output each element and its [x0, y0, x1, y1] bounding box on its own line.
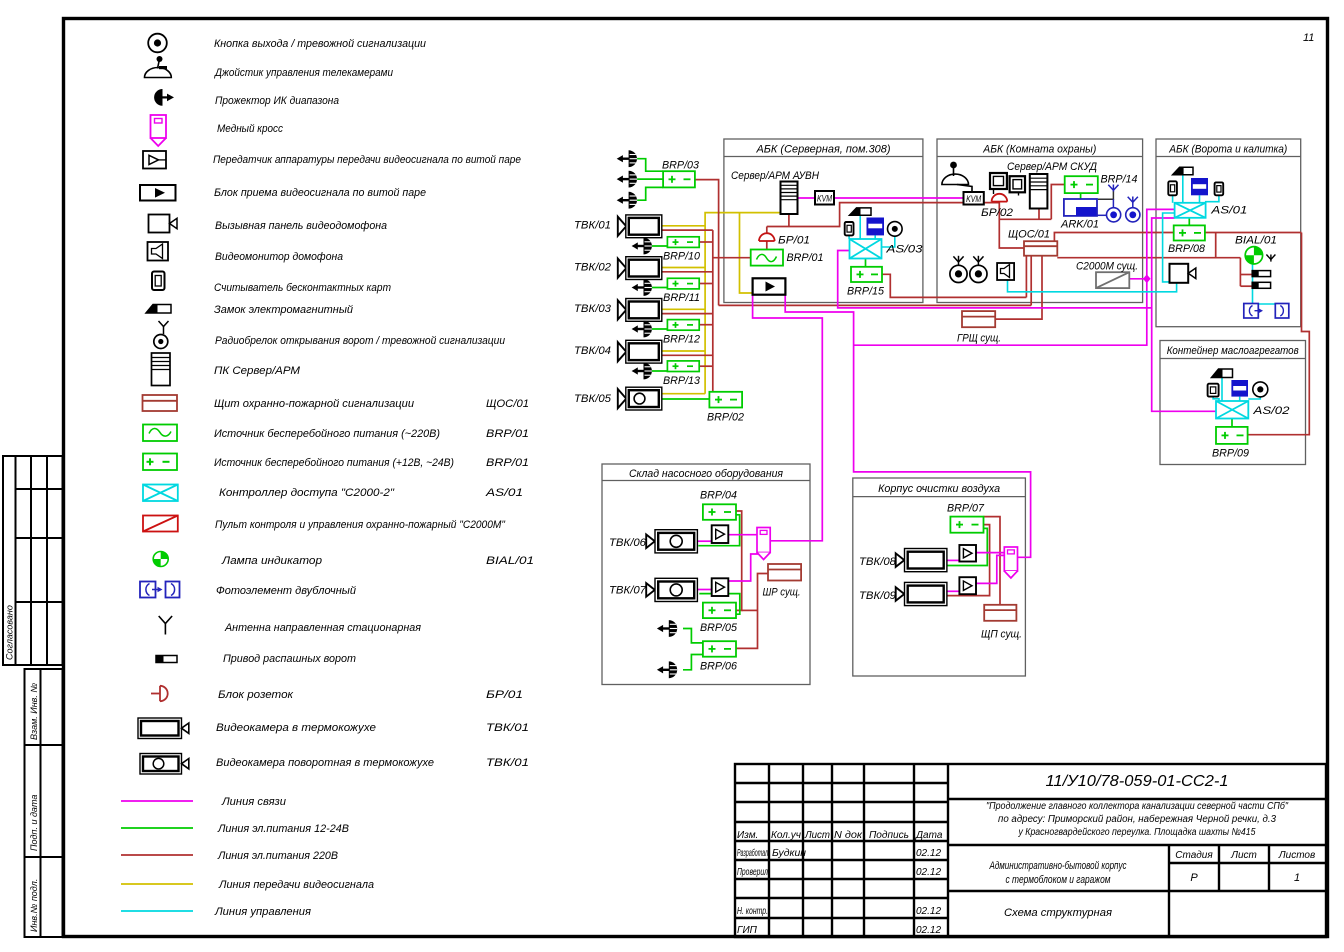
wire: control AS/01 to door panel: [1163, 213, 1175, 282]
IR floodlight row 1: [632, 238, 652, 255]
wire: 220V BR/02 drop to ShchOS: [999, 202, 1024, 248]
legend: intercom video monitor symbol: [148, 242, 169, 261]
UPS BRP/14: [1065, 176, 1098, 193]
twisted-pair video receiver block: [753, 278, 786, 294]
svg-text:ЩОС/01: ЩОС/01: [1008, 229, 1050, 241]
wire: comm KVM to KVM: [834, 197, 964, 199]
wire: comm TVK/09 to transmitter: [945, 590, 959, 592]
svg-text:БР/01: БР/01: [486, 689, 523, 701]
legend: two-unit photocell symbol: [140, 582, 180, 598]
svg-text:АБК (Серверная, пом.308): АБК (Серверная, пом.308): [756, 144, 891, 156]
card reader 1 (gate): [1168, 181, 1177, 195]
camera TVK/04: [618, 340, 662, 363]
svg-text:AS/01: AS/01: [1210, 205, 1247, 217]
UPS BRP/11: [667, 278, 699, 289]
svg-text:11: 11: [1303, 32, 1314, 44]
svg-text:Кол.уч: Кол.уч: [771, 830, 801, 841]
video transmitter 2 (warehouse): [712, 578, 729, 596]
svg-text:Замок электромагнитный: Замок электромагнитный: [214, 304, 353, 316]
legend: indicator lamp symbol, BIAL/01: [153, 552, 168, 567]
existing cabinet ShR: [768, 564, 801, 581]
wire: control reader to AS/02: [1213, 397, 1219, 401]
wire: 12V BRP/06 to IR light 2: [683, 655, 703, 670]
junction: comm diamond node: [1143, 274, 1151, 283]
wire: control lamp to photocells: [1253, 264, 1281, 306]
svg-text:Склад насосного оборудования: Склад насосного оборудования: [629, 468, 783, 480]
svg-text:AS/01: AS/01: [485, 487, 523, 499]
svg-text:Лампа индикатор: Лампа индикатор: [221, 555, 322, 567]
IR floodlight row 4: [632, 363, 652, 380]
svg-text:по адресу: Приморский район, н: по адресу: Приморский район, набережная …: [998, 813, 1276, 825]
svg-text:Блок розеток: Блок розеток: [218, 689, 294, 701]
legend: 220V power line sample: [121, 854, 193, 856]
svg-text:Линия управления: Линия управления: [214, 906, 311, 918]
wire: 220V ShchOS drop 2: [1030, 256, 1032, 306]
wire: 220V trunk below ShchOS: [1057, 257, 1240, 259]
PTZ camera TVK/07: [646, 578, 697, 601]
wire: 12V IR to BRP/13: [649, 370, 668, 372]
wire: 220V down gate box edge to oil container: [1248, 233, 1310, 435]
svg-text:Линия эл.питания 220В: Линия эл.питания 220В: [217, 850, 338, 862]
electromagnetic lock (gate door): [1173, 167, 1193, 175]
legend: security/fire alarm panel symbol, ЩОС/01: [143, 395, 178, 411]
svg-text:02.12: 02.12: [916, 848, 941, 859]
wire: 220V ShR riser: [736, 574, 768, 649]
wire: video TVK/03 to bus: [662, 308, 705, 310]
wire: comm receiver to pump warehouse cross: [753, 295, 823, 541]
svg-text:ТВК/08: ТВК/08: [859, 556, 897, 568]
svg-text:Радиобрелок открывания ворот /: Радиобрелок открывания ворот / тревожной…: [215, 335, 505, 347]
wire: control door panel to intercom speaker: [1008, 280, 1177, 292]
svg-text:Согласовано: Согласовано: [5, 605, 15, 660]
svg-text:Источник бесперебойного питани: Источник бесперебойного питания (~220В): [214, 428, 440, 440]
wire: 220V gate drive 1 stub: [1240, 274, 1252, 276]
wire: comm AS/03 trunk: [838, 251, 1152, 308]
electromagnetic lock (container): [1212, 369, 1233, 378]
svg-text:BRP/11: BRP/11: [663, 292, 700, 304]
svg-text:Н. контр.: Н. контр.: [737, 906, 768, 917]
svg-text:ЩП сущ.: ЩП сущ.: [981, 629, 1022, 641]
legend: 12-24V power line sample: [121, 827, 193, 829]
svg-text:ТВК/01: ТВК/01: [486, 757, 529, 769]
wire: comm transmitter to cross (air building): [976, 552, 1004, 554]
wire: 220V BRP/08 drop: [1215, 233, 1217, 258]
wire: 220V BRP/12 stub: [699, 324, 713, 326]
wire: 220V TVK/02 stub: [662, 271, 713, 273]
monitor 2: [1010, 176, 1025, 195]
svg-text:ТВК/02: ТВК/02: [574, 261, 611, 273]
UPS BRP/04: [703, 504, 736, 520]
svg-text:Прожектор ИК диапазона: Прожектор ИК диапазона: [215, 95, 339, 107]
svg-text:Блок приема видеосигнала по ви: Блок приема видеосигнала по витой паре: [214, 187, 426, 199]
svg-text:BRP/01: BRP/01: [486, 457, 529, 469]
svg-text:AS/03: AS/03: [885, 244, 923, 256]
wire: comm server to KVM: [798, 197, 816, 199]
svg-text:Антенна направленная стационар: Антенна направленная стационарная: [224, 622, 421, 634]
wire: 12V BRP/06 to IR light 1: [683, 629, 703, 643]
svg-text:BRP/03: BRP/03: [662, 160, 700, 172]
svg-text:BRP/10: BRP/10: [663, 251, 701, 263]
radio fob black 2: [970, 265, 987, 282]
exit button (AS/03 door): [888, 222, 903, 237]
svg-text:02.12: 02.12: [916, 906, 941, 917]
camera TVK/02: [618, 257, 662, 280]
wire: comm AS/01 to C2000M and junction: [854, 209, 1175, 345]
wire: 12V BRP/05 to TVK/07: [699, 594, 740, 615]
svg-text:Дата: Дата: [915, 830, 943, 841]
legend: control line sample: [121, 910, 193, 912]
UPS BRP/03: [663, 171, 695, 187]
legend: C2000M control console symbol: [143, 516, 178, 532]
svg-text:ТВК/01: ТВК/01: [574, 220, 611, 232]
wire: comm TVK/07 to transmitter: [697, 589, 711, 591]
UPS BRP/09: [1216, 427, 1248, 444]
IR floodlight (warehouse 1): [657, 620, 677, 637]
wire: 220V BR/01 top stub: [766, 227, 768, 234]
svg-text:BRP/06: BRP/06: [700, 661, 738, 673]
svg-text:BRP/07: BRP/07: [947, 503, 985, 515]
building box: АБК Комната охраны: [937, 139, 1143, 303]
antenna (black fob 2): [973, 256, 983, 266]
wire: video TVK/02 to bus: [662, 267, 705, 269]
exit button (container): [1253, 382, 1268, 397]
copper cross-connect (warehouse): [757, 528, 770, 560]
wire: 220V ShchOS riser to gates: [1054, 233, 1173, 242]
UPS BRP/06: [703, 641, 736, 657]
wire: control em-lock to AS/03: [874, 235, 876, 239]
svg-text:Подпись: Подпись: [869, 830, 909, 841]
svg-text:с термоблоком и гаражом: с термоблоком и гаражом: [1006, 874, 1111, 886]
photocell unit 2: [1275, 304, 1289, 319]
svg-text:Р: Р: [1190, 872, 1198, 884]
wire: 220V BRP/11 stub: [699, 283, 713, 285]
UPS BRP/15: [851, 267, 882, 282]
svg-text:ТВК/04: ТВК/04: [574, 345, 611, 357]
svg-text:Изм.: Изм.: [737, 830, 758, 841]
svg-text:Линия передачи видеосигнала: Линия передачи видеосигнала: [218, 879, 374, 891]
wire: 220V ShchOS drop 1: [1025, 256, 1027, 298]
camera control joystick: [942, 162, 972, 192]
svg-text:Стадия: Стадия: [1175, 850, 1213, 861]
UPS BRP/13: [667, 361, 699, 372]
security panel ShchOS/01: [1024, 241, 1057, 256]
legend: radio key fob symbol: [154, 321, 169, 349]
socket block BR/01: [759, 233, 775, 241]
wire: 220V horizontal to BRP/14 riser: [999, 218, 1051, 220]
svg-text:ЩОС/01: ЩОС/01: [486, 398, 529, 410]
legend: PTZ camera in thermal housing symbol, ТВК/01: [140, 754, 189, 775]
legend: socket outlet block symbol, БР/01: [151, 686, 168, 701]
legend: UPS ~220V symbol, BRP/01: [143, 425, 177, 442]
gate drive 2: [1252, 282, 1270, 288]
legend: communication line sample: [121, 800, 193, 802]
svg-text:Кнопка выхода / тревожной сигн: Кнопка выхода / тревожной сигнализации: [214, 38, 426, 50]
legend: electromagnetic lock symbol: [146, 305, 171, 314]
wire: 220V TVK/03 stub: [662, 313, 713, 315]
wire: 12V IR to BRP/11: [649, 287, 668, 289]
wire: video bus vertical: [705, 213, 780, 394]
wire: 220V BRP/14 feed: [1051, 185, 1064, 220]
svg-text:Инв.№ подл.: Инв.№ подл.: [29, 879, 39, 932]
wire: comm TVK/06 to transmitter: [697, 540, 711, 542]
svg-text:Разработал: Разработал: [737, 847, 768, 859]
svg-text:ТВК/07: ТВК/07: [609, 585, 647, 597]
title block: [735, 764, 1326, 937]
legend: camera in thermal housing symbol, ТВК/01: [138, 718, 189, 739]
wire: 220V BRP/07 to ShchP: [984, 517, 1001, 605]
gate drive 1: [1252, 271, 1270, 277]
svg-text:BRP/01: BRP/01: [486, 428, 529, 440]
wire: 12V AS/01 to BRP/08: [1188, 218, 1190, 226]
wire: control reader 2 to AS/01: [1205, 195, 1219, 201]
legend: video intercom call panel symbol: [149, 215, 178, 233]
card reader 2 (gate): [1215, 182, 1224, 195]
em-lock blue unit (gate): [1191, 178, 1208, 195]
wire: 220V BRP/07 to TVK/09: [946, 525, 989, 596]
svg-text:Источник бесперебойного питани: Источник бесперебойного питания (+12В, ~…: [214, 457, 454, 469]
wire: comm transmitter 2 to cross (warehouse): [728, 554, 758, 581]
wire: 220V main horizontal under server room: [719, 304, 1032, 306]
UPS BRP/08: [1174, 225, 1205, 240]
svg-text:11/У10/78-059-01-СС2-1: 11/У10/78-059-01-СС2-1: [1046, 773, 1229, 790]
svg-text:BIAL/01: BIAL/01: [1235, 235, 1277, 247]
wire: 220V BRP/08 out: [1205, 232, 1302, 234]
svg-text:ТВК/03: ТВК/03: [574, 303, 612, 315]
svg-text:BRP/02: BRP/02: [707, 412, 744, 424]
KVM switch 1: [815, 191, 834, 205]
wire: 12V IR to BRP/12: [649, 328, 668, 330]
building box: АБК Ворота и калитка: [1156, 139, 1301, 327]
wire: 220V BRP/13 stub: [699, 365, 713, 367]
wire: control exit button to AS/03: [882, 236, 895, 247]
svg-text:BRP/01: BRP/01: [787, 252, 824, 264]
wire: video TVK/01 to bus: [662, 225, 705, 227]
building box: Корпус очистки воздуха: [853, 478, 1026, 676]
legend: UPS +12/24V symbol, BRP/01: [143, 454, 177, 471]
PC tower SKUD: [1030, 174, 1048, 209]
legend: swing gate drive symbol: [156, 656, 177, 663]
legend: fixed directional antenna symbol: [159, 616, 172, 635]
wire: 12V BRP/14 to ARK/01: [1080, 193, 1082, 199]
legend: copper cross-connect symbol: [151, 115, 167, 146]
svg-text:ПК Сервер/АРМ: ПК Сервер/АРМ: [214, 365, 301, 377]
radio receiver ARK/01: [1064, 199, 1097, 216]
intercom call panel (gate): [1170, 264, 1196, 283]
svg-text:Контейнер маслоагрегатов: Контейнер маслоагрегатов: [1167, 345, 1299, 357]
svg-text:Листов: Листов: [1278, 850, 1315, 861]
legend: IR floodlight symbol: [154, 89, 174, 106]
legend: PC server/workstation symbol: [152, 353, 171, 386]
UPS BRP/12: [667, 320, 699, 331]
camera TVK/08: [896, 549, 947, 572]
copper cross-connect (air building): [1004, 547, 1017, 578]
wire: control reader to AS/03: [848, 235, 850, 239]
UPS BRP/05: [703, 603, 736, 619]
svg-text:БР/02: БР/02: [981, 207, 1013, 219]
svg-text:BRP/09: BRP/09: [1212, 448, 1249, 460]
wire: 12V TVK/05 to BRP/02: [662, 398, 710, 400]
svg-text:"Продолжение главного коллекто: "Продолжение главного коллектора канализ…: [986, 800, 1288, 812]
PTZ camera TVK/06: [646, 530, 697, 553]
building box: АБК Серверная пом.308: [724, 139, 923, 303]
camera TVK/03: [618, 299, 662, 322]
IR floodlight group top (BRP/03 loads): [617, 150, 637, 208]
wire: ARK/01 to antenna: [1098, 191, 1114, 199]
monitor 1: [990, 173, 1007, 194]
svg-text:BRP/12: BRP/12: [663, 334, 700, 346]
wire: ARK/01 to radio fob: [1097, 214, 1107, 216]
svg-text:Щит охранно-пожарной сигнализа: Щит охранно-пожарной сигнализации: [214, 398, 414, 410]
video transmitter 1 (warehouse): [712, 525, 729, 543]
svg-text:Взам. Инв. №: Взам. Инв. №: [29, 683, 39, 740]
wire: 12V IR light 1 to BRP/03: [637, 159, 663, 172]
card reader (AS/03 door): [845, 222, 854, 235]
wire: 220V server drop: [788, 214, 790, 227]
svg-text:С2000М сущ.: С2000М сущ.: [1076, 261, 1138, 273]
svg-text:Административно-бытовой корпус: Административно-бытовой корпус: [989, 860, 1127, 872]
UPS BRP/02: [709, 392, 742, 408]
svg-text:AS/02: AS/02: [1252, 405, 1289, 417]
antenna (radio fob 2): [1128, 197, 1138, 208]
access controller AS/01: [1175, 203, 1206, 218]
wire: 220V link to ShR riser: [742, 609, 758, 611]
svg-text:Схема структурная: Схема структурная: [1004, 907, 1112, 919]
left attribute stamp (Взам/Подп/Инв): [25, 669, 63, 937]
svg-text:Джойстик управления телекамера: Джойстик управления телекамерами: [213, 67, 393, 79]
server/workstation AUVN tower: [781, 182, 798, 215]
svg-text:Сервер/АРМ СКУД: Сервер/АРМ СКУД: [1007, 161, 1097, 173]
camera TVK/09: [896, 582, 947, 605]
svg-text:Пульт контроля и управления ох: Пульт контроля и управления охранно-пожа…: [215, 519, 506, 531]
svg-text:Видеомонитор домофона: Видеомонитор домофона: [215, 251, 343, 263]
svg-text:BRP/05: BRP/05: [700, 622, 738, 634]
approval side stamp (Согласовано): [3, 456, 63, 665]
legend: exit/alarm button symbol: [148, 34, 167, 53]
svg-text:Лист: Лист: [1230, 850, 1257, 861]
svg-text:Видеокамера в термокожухе: Видеокамера в термокожухе: [216, 722, 376, 734]
svg-text:ГИП: ГИП: [737, 925, 758, 936]
radio fob 1 (blue): [1107, 199, 1121, 222]
radio fob black 1: [950, 265, 967, 282]
wire: control lock to AS/01: [1182, 175, 1184, 203]
legend: video signal line sample: [121, 883, 193, 885]
building box: Контейнер маслоагрегатов: [1160, 341, 1306, 465]
antenna (radio fob 1): [1108, 185, 1118, 192]
access controller AS/03: [850, 239, 882, 259]
svg-text:BRP/08: BRP/08: [1168, 243, 1206, 255]
svg-text:АБК (Комната охраны): АБК (Комната охраны): [982, 144, 1096, 156]
wire: 220V TVK/04 stub: [662, 354, 713, 356]
svg-text:BRP/04: BRP/04: [700, 490, 737, 502]
svg-text:Будкин: Будкин: [772, 848, 807, 859]
wire: 12V AS/03 to BRP/15: [865, 259, 867, 267]
svg-text:Привод распашных ворот: Привод распашных ворот: [223, 653, 356, 665]
svg-text:Медный кросс: Медный кросс: [217, 123, 283, 135]
legend: access controller C2000-2 symbol, AS/01: [143, 485, 178, 502]
svg-text:BIAL/01: BIAL/01: [486, 555, 534, 567]
antenna (lamp): [1266, 255, 1275, 262]
wire: control em-lock to AS/01: [1199, 195, 1201, 203]
svg-text:Контроллер доступа "С2000-2": Контроллер доступа "С2000-2": [219, 487, 395, 499]
svg-text:Вызывная панель видеодомофона: Вызывная панель видеодомофона: [215, 220, 387, 232]
svg-text:BRP/13: BRP/13: [663, 375, 701, 387]
socket block BR/02: [992, 194, 1008, 202]
svg-text:Фотоэлемент двублочный: Фотоэлемент двублочный: [216, 585, 356, 597]
wire: control exit button to AS/02: [1248, 397, 1260, 399]
legend: twisted-pair video transmitter symbol: [143, 151, 166, 169]
wire: video TVK/05 to bus: [662, 393, 705, 395]
PTZ camera TVK/05: [618, 387, 662, 410]
svg-text:у Красногвардейского переулка.: у Красногвардейского переулка. Площадка …: [1018, 827, 1256, 838]
svg-text:ГРЩ сущ.: ГРЩ сущ.: [957, 333, 1001, 345]
wire: 220V ShchOS to GRShch: [995, 256, 1042, 319]
wire: 220V BRP/01 feed: [713, 257, 751, 259]
svg-text:BRP/14: BRP/14: [1101, 174, 1138, 186]
camera TVK/01: [618, 215, 662, 238]
wire: control em-lock to AS/02: [1239, 397, 1241, 401]
photocell unit 1: [1244, 304, 1263, 319]
svg-text:Линия связи: Линия связи: [221, 796, 286, 808]
intercom speaker monitor: [997, 263, 1014, 280]
svg-text:Корпус очистки воздуха: Корпус очистки воздуха: [878, 483, 1000, 495]
wire: control reader 1 to AS/01: [1172, 195, 1174, 203]
wire: comm trunk riser to AS/01: [1152, 218, 1216, 411]
svg-text:ТВК/09: ТВК/09: [859, 590, 896, 602]
wire: 12V IR light 3 to BRP/03: [637, 187, 663, 200]
UPS BRP/01 (~220V): [751, 250, 783, 266]
video transmitter 1 (air building): [959, 545, 976, 562]
svg-text:Линия эл.питания 12-24В: Линия эл.питания 12-24В: [217, 823, 349, 835]
legend: camera joystick symbol: [145, 56, 172, 78]
svg-text:Лист: Лист: [804, 830, 830, 841]
svg-text:02.12: 02.12: [916, 925, 941, 936]
wire: 12V IR to BRP/10: [649, 245, 668, 247]
svg-text:KVM: KVM: [966, 194, 981, 204]
radio fob 2 (blue): [1126, 208, 1140, 222]
wire: video branch to receiver: [740, 213, 753, 293]
IR floodlight (warehouse 2): [657, 661, 677, 678]
svg-text:Подп. и дата: Подп. и дата: [29, 795, 39, 851]
wire: 220V PC drop: [1038, 209, 1040, 220]
existing panel ShchP: [984, 605, 1016, 621]
wire: 220V TVK/01 stub: [662, 229, 713, 231]
svg-text:KVM: KVM: [817, 194, 832, 204]
wire: 220V BRP/15 feed: [882, 274, 1027, 297]
wire: comm C2000M branch: [1129, 278, 1147, 280]
em-lock blue unit (container): [1231, 380, 1248, 397]
svg-text:02.12: 02.12: [916, 867, 941, 878]
antenna (black fob 1): [953, 256, 963, 266]
wire: control lock to AS/03: [859, 215, 861, 239]
wire: comm receiver to air building cross: [785, 295, 1030, 558]
svg-text:1: 1: [1294, 872, 1300, 884]
building box: Склад насосного оборудования: [602, 464, 810, 685]
existing main switchboard GRShch: [962, 311, 995, 327]
access controller AS/02: [1216, 401, 1248, 419]
svg-text:БР/01: БР/01: [778, 235, 810, 247]
card reader (container): [1208, 384, 1219, 397]
wire: control lock to AS/02: [1221, 378, 1223, 402]
wire: 220V camera bus V1: [712, 230, 714, 392]
video transmitter 2 (air building): [959, 577, 976, 594]
indicator lamp BIAL/01: [1245, 247, 1262, 264]
UPS BRP/10: [667, 237, 699, 248]
svg-text:ТВК/01: ТВК/01: [486, 722, 529, 734]
svg-text:N док: N док: [834, 830, 863, 841]
UPS BRP/07: [950, 517, 983, 533]
svg-text:ТВК/05: ТВК/05: [574, 393, 612, 405]
svg-text:ARK/01: ARK/01: [1060, 219, 1099, 231]
